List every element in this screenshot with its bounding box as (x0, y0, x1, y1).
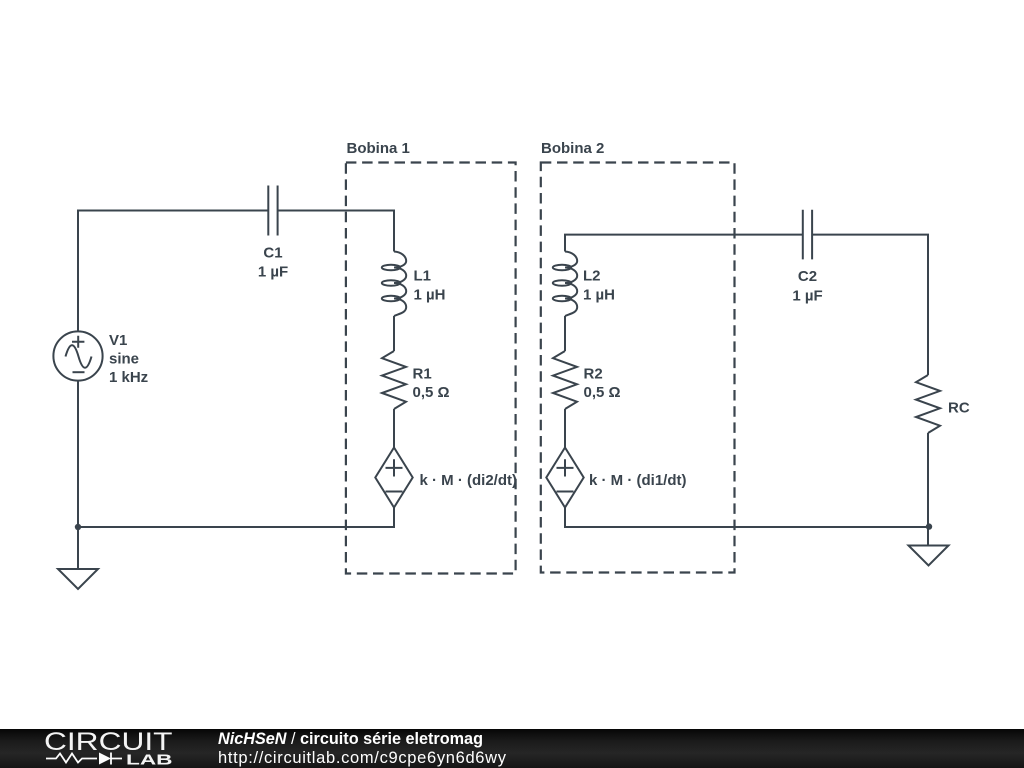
wire (813, 235, 928, 375)
inductor L1 (382, 252, 406, 317)
wire (564, 409, 566, 448)
wire (564, 316, 566, 351)
svg-text:0,5 Ω: 0,5 Ω (584, 384, 621, 401)
ground (909, 527, 949, 566)
svg-text:k · M · (di1/dt): k · M · (di1/dt) (589, 472, 687, 489)
wire (393, 409, 395, 448)
resistor R1 (382, 351, 406, 409)
Bobina 2 box (541, 163, 735, 573)
dependent source B1 (375, 448, 412, 508)
svg-text:Bobina 1: Bobina 1 (347, 140, 410, 157)
svg-text:R1: R1 (413, 366, 432, 383)
svg-text:0,5 Ω: 0,5 Ω (413, 384, 450, 401)
svg-text:L2: L2 (583, 268, 601, 285)
resistor R2 (553, 351, 577, 409)
svg-text:R2: R2 (584, 366, 603, 383)
svg-text:1 µF: 1 µF (258, 264, 288, 281)
svg-text:L1: L1 (414, 268, 432, 285)
dependent source B2 (546, 448, 583, 508)
resistor RC (916, 375, 940, 433)
wire (279, 211, 395, 252)
svg-text:sine: sine (109, 351, 139, 368)
svg-text:k · M · (di2/dt): k · M · (di2/dt) (420, 472, 518, 489)
inductor L2 (553, 252, 577, 317)
wire (565, 508, 928, 528)
wire (393, 316, 395, 351)
svg-text:Bobina 2: Bobina 2 (541, 140, 604, 157)
Bobina 1 box (346, 163, 516, 574)
wire (565, 235, 802, 252)
footer bar (0, 729, 1024, 768)
svg-text:LAB: LAB (126, 752, 173, 768)
svg-text:1 µF: 1 µF (792, 288, 822, 305)
wire (78, 211, 268, 333)
CircuitLab logo (44, 728, 173, 768)
voltage source V1 (53, 331, 102, 380)
svg-text:1 µH: 1 µH (414, 287, 446, 304)
junction dot (75, 524, 81, 530)
svg-text:http://circuitlab.com/c9cpe6yn: http://circuitlab.com/c9cpe6yn6d6wy (218, 749, 507, 767)
capacitor C1 (268, 186, 277, 236)
svg-text:NicHSeN / circuito série eletr: NicHSeN / circuito série eletromag (218, 730, 483, 748)
wire (927, 433, 929, 527)
svg-text:RC: RC (948, 399, 970, 416)
component reference and value labels (109, 140, 970, 489)
wire (78, 381, 394, 527)
svg-text:V1: V1 (109, 332, 127, 349)
ground (58, 527, 98, 589)
svg-text:C1: C1 (263, 245, 282, 262)
svg-text:1 µH: 1 µH (583, 287, 615, 304)
svg-text:1 kHz: 1 kHz (109, 369, 148, 386)
svg-text:C2: C2 (798, 268, 817, 285)
capacitor C2 (803, 210, 812, 260)
junction dot (926, 523, 932, 529)
